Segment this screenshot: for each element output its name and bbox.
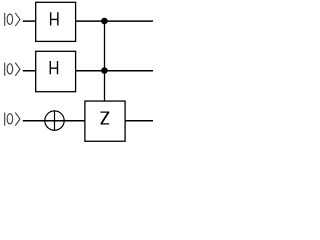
xor circle [45, 111, 64, 130]
quantum circuit: two Hadamard controls onto Z gate, CNOT-target on qubit 3 [0, 0, 153, 149]
gate H q2 label [50, 61, 59, 74]
node ket |0> qubit 2 [5, 63, 20, 76]
wire qubit 1 [23, 20, 153, 22]
gate H q2 box [36, 51, 76, 91]
wire: vertical control line from q1 through q2 to Z gate [104, 21, 106, 101]
gate Z label [101, 112, 110, 125]
node ket |0> qubit 3 [5, 113, 20, 126]
gate H q1 label [50, 12, 59, 25]
node ket |0> qubit 1 [5, 13, 20, 26]
gate Z box [85, 101, 125, 141]
gate H q1 box [36, 2, 76, 41]
wire qubit 3 [23, 120, 153, 122]
xor vertical stroke [54, 110, 56, 130]
wire qubit 2 [23, 70, 153, 72]
ket digit 0 [7, 14, 13, 24]
control dot q1 [101, 18, 108, 25]
ket right angle bracket [15, 13, 20, 26]
control dot q2 [101, 67, 108, 74]
ket vertical bar | [4, 13, 6, 26]
CNOT target (xor) q3 [45, 110, 64, 130]
